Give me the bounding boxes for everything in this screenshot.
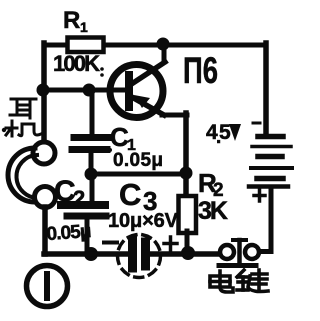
svg-text:10μ×6V: 10μ×6V xyxy=(108,210,179,232)
wire base wire xyxy=(43,88,129,93)
speckle left of ji glyph xyxy=(2,128,6,132)
node base-left junction xyxy=(37,84,50,97)
battery plus mark xyxy=(254,190,265,201)
value 0.05u C1 xyxy=(113,150,163,171)
capacitor C2 xyxy=(61,205,106,216)
wire battery to switch xyxy=(259,188,271,252)
earphone terminal bottom xyxy=(35,187,56,208)
value 100K xyxy=(53,51,104,76)
C3 dashed circle callout xyxy=(118,235,161,278)
wire collector lead xyxy=(162,42,167,62)
value 10ux6V C3 xyxy=(108,210,179,232)
wire top rail from R1 to battery xyxy=(44,43,266,48)
wire emitter lead xyxy=(162,113,187,118)
wire emitter vertical to R2 xyxy=(183,113,189,198)
svg-text:1: 1 xyxy=(80,19,88,35)
switch contact left xyxy=(220,245,234,259)
node bottom-right junction xyxy=(181,246,195,260)
battery B1 plates xyxy=(249,137,292,187)
resistor R1 body xyxy=(68,38,104,53)
value 3K xyxy=(198,197,228,225)
switch contact right xyxy=(245,245,259,259)
label R1 xyxy=(63,7,88,35)
wire C2 top lead xyxy=(90,174,95,203)
label 电键 key (drawn glyphs) xyxy=(210,270,268,292)
svg-text:3K: 3K xyxy=(198,197,228,225)
earphone cord inner arc xyxy=(16,155,39,198)
earphone cord outer arc xyxy=(8,148,35,202)
switch base bar xyxy=(219,263,256,268)
node R2 top junction xyxy=(180,167,193,180)
capacitor C3 electrolytic plates xyxy=(133,240,146,268)
speckle near transistor top-left xyxy=(100,73,104,77)
label C3 xyxy=(119,177,157,216)
label П6 xyxy=(183,50,218,91)
wire bottom rail left xyxy=(44,251,128,257)
wire C1 bottom lead xyxy=(89,152,94,174)
svg-text:R: R xyxy=(63,7,80,34)
wire earphone bottom to rail xyxy=(42,207,48,254)
node mid-left junction xyxy=(85,168,98,181)
wire right rail down to battery xyxy=(263,43,269,132)
C3 minus sign xyxy=(104,241,117,245)
value 0.05u C2 xyxy=(46,221,92,245)
wire left rail down to earphone xyxy=(41,43,47,144)
wire C1 top lead xyxy=(90,90,95,134)
wire bottom rail right xyxy=(150,251,221,257)
battery minus mark xyxy=(253,122,260,125)
label 耳机 earphone (drawn glyphs) xyxy=(6,99,41,136)
svg-text:2: 2 xyxy=(73,186,85,211)
wire C2 bottom lead xyxy=(85,218,90,254)
label 4.5V xyxy=(206,121,241,148)
speckle near C1 plate xyxy=(108,148,112,152)
node bottom-left junction xyxy=(84,247,98,261)
label R2 xyxy=(198,168,224,201)
svg-text:0.05μ: 0.05μ xyxy=(46,221,92,245)
label C1 xyxy=(110,122,136,154)
earphone terminal top xyxy=(33,142,55,164)
figure number 1 circled xyxy=(27,266,68,307)
resistor R2 body xyxy=(179,196,197,233)
switch key lever xyxy=(233,240,246,263)
svg-text:П6: П6 xyxy=(183,50,218,91)
svg-text:0.05μ: 0.05μ xyxy=(113,150,163,171)
svg-text:C: C xyxy=(119,177,141,212)
label C2 xyxy=(54,175,85,211)
C3 plus sign xyxy=(164,237,177,250)
node C1 top junction xyxy=(83,84,96,97)
wire mid horizontal xyxy=(91,172,186,177)
wire R2 bottom lead xyxy=(185,231,190,254)
capacitor C1 xyxy=(72,138,109,150)
svg-text:100K: 100K xyxy=(53,51,100,76)
node collector junction xyxy=(157,38,170,51)
transistor Q1 П6 xyxy=(110,62,165,118)
